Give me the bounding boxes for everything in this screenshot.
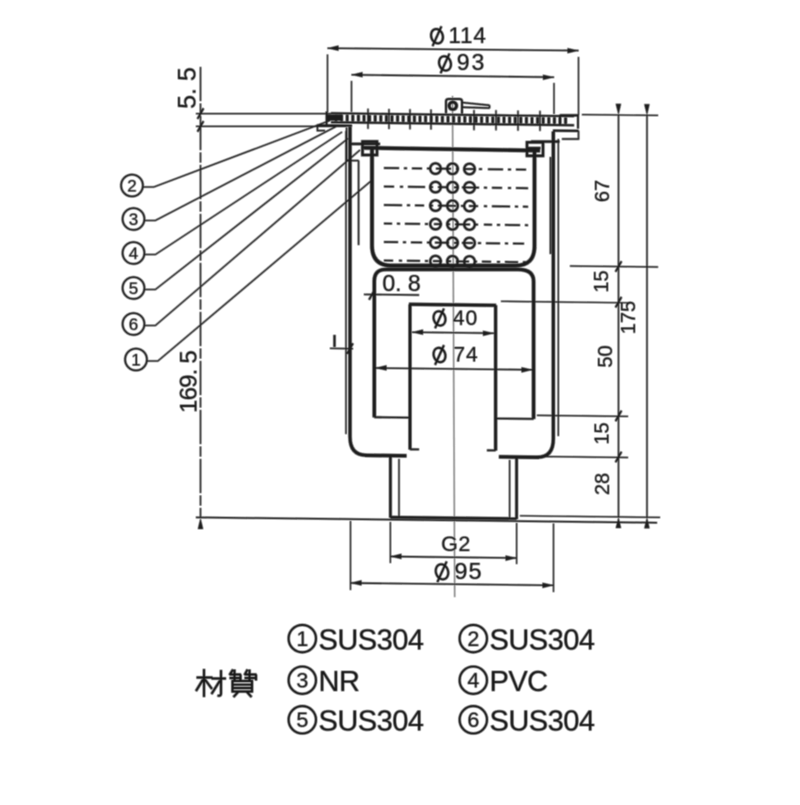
dip tube bottom lips [410,448,419,450]
dim line left vertical [200,67,202,518]
svg-text:175: 175 [618,301,640,334]
dim 175 [646,115,648,517]
material item 6 SUS304 [460,706,487,733]
svg-text:15: 15 [591,270,613,292]
callout balloon 5 [123,277,145,299]
center line [453,96,455,597]
bowl bottom right [496,418,534,420]
svg-text:2: 2 [127,176,136,195]
svg-text:114: 114 [448,23,486,48]
svg-text:95: 95 [454,558,482,584]
svg-text:4: 4 [467,669,479,693]
strainer hole row 1 holes [430,163,441,174]
svg-text:74: 74 [453,344,478,367]
callout balloon 3 [123,208,145,230]
strainer hole row 4 centerline [384,224,528,226]
svg-text:5: 5 [129,279,138,298]
strainer hole row 2 holes [430,182,441,193]
material item 1 SUS304 [289,625,316,652]
dim chain 67/15/50/15/28 [618,115,620,517]
dim phi114 [328,48,579,50]
svg-text:15: 15 [592,422,614,444]
svg-text:67: 67 [592,180,614,202]
material item 3 NR [289,667,316,694]
svg-text:2: 2 [467,627,479,651]
dip tube wall left [409,305,412,450]
dim G2 [389,522,391,563]
svg-text:SUS304: SUS304 [319,706,424,738]
svg-text:5: 5 [296,708,308,732]
frame sleeve right [550,157,552,254]
lid grate slot ticks [336,115,566,124]
strainer hole row 5 centerline [384,242,528,244]
basket hook right [527,142,543,156]
callout balloon 6 [123,313,145,335]
svg-text:93: 93 [457,49,487,75]
strainer hole row 3 centerline [384,205,528,207]
body flange right nose [562,131,579,139]
svg-text:SUS304: SUS304 [490,624,595,656]
outlet pipe outer wall [389,456,392,518]
dim phi95 [350,521,352,590]
outlet pipe thread root [398,459,400,517]
dim 5.5 extension lines [196,113,331,115]
svg-text:NR: NR [319,666,360,698]
body flange right top [553,130,579,132]
svg-text:5. 5: 5. 5 [174,67,202,109]
bell bottom edge right [499,455,539,459]
lid left edge [326,112,328,127]
strainer hole row 3 holes [430,200,441,211]
svg-text:6: 6 [467,708,479,732]
lid handle U-bracket [446,99,462,114]
svg-text:28: 28 [592,473,614,495]
strainer hole row 2 centerline [384,187,528,189]
inner cup (bowl) [374,269,533,419]
strainer hole row 4 holes [430,219,441,230]
svg-text:169. 5: 169. 5 [176,351,203,413]
svg-text:1: 1 [131,350,140,369]
strainer hole row 1 centerline [384,168,528,170]
lid grate long ticks [368,109,540,131]
material item 2 SUS304 [460,625,487,652]
leader line 1 [147,181,371,361]
dip tube wall right [494,305,497,450]
bowl bottom left [374,416,410,418]
leader line 2 [143,121,330,188]
right chain extension lines [582,114,658,117]
strainer hole row 6 centerline [384,261,528,263]
body flange left nose [317,125,325,130]
svg-text:1: 1 [296,627,308,651]
strainer hole row 5 holes [430,237,441,248]
leader line 3 [144,127,336,221]
callout balloon 2 [121,175,143,197]
svg-text:G2: G2 [441,532,471,556]
leader line 5 [144,139,348,290]
dim phi93 [352,75,555,77]
lid grate plate top [331,113,574,116]
dim 1 wall thickness [333,335,335,347]
material table label 材質 (drawn kanji) [196,669,257,697]
dim phi74 [376,368,533,370]
material item 4 PVC [460,667,487,694]
body wall right [538,132,554,458]
svg-text:4: 4 [129,244,138,263]
svg-text:0. 8: 0. 8 [382,270,420,296]
dip tube top rim [409,304,496,305]
svg-text:SUS304: SUS304 [319,624,424,656]
basket rim [364,148,540,151]
basket wall and bottom [372,149,535,266]
lid right step [560,116,578,129]
svg-text:SUS304: SUS304 [490,706,595,738]
leader line 6 [144,150,360,326]
basket hook left [363,142,378,156]
frame ledge left [350,143,380,145]
frame ledge right [531,140,560,142]
body flange left top [317,124,352,127]
svg-text:3: 3 [296,669,308,693]
svg-text:40: 40 [453,307,478,330]
strainer hole row 6 holes [430,256,441,267]
lid grate plate bottom [331,122,574,125]
dim 169.5 [198,518,203,529]
outlet pipe end [390,517,516,518]
svg-text:50: 50 [595,345,617,367]
svg-text:3: 3 [129,210,138,229]
svg-text:6: 6 [129,315,138,334]
callout balloon 1 [125,349,147,371]
bell bottom edge left [365,454,407,458]
svg-text:PVC: PVC [490,666,548,698]
callout balloon 4 [123,242,145,264]
floor line [196,517,657,522]
material item 5 SUS304 [289,706,316,733]
dim phi40 [412,332,494,333]
frame channel left [347,128,359,246]
leader line 4 [144,132,342,255]
body wall left [350,127,366,455]
handle pivot circle [449,102,456,109]
handle bar [462,103,490,109]
lid left lip (dark) [327,115,342,121]
